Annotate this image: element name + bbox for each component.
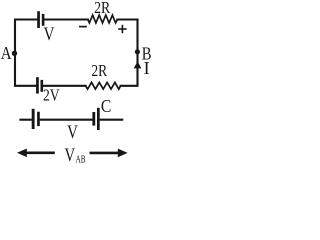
battery V (bottom branch) bbox=[32, 109, 40, 129]
node B bbox=[135, 49, 140, 54]
arrow left (V_AB) bbox=[17, 149, 55, 158]
wire right side down to B bbox=[136, 20, 138, 63]
svg-text:2V: 2V bbox=[43, 86, 60, 105]
wire top-left segment bbox=[15, 20, 37, 54]
current arrow I on right wire bbox=[134, 61, 142, 68]
polarity minus (top resistor) bbox=[79, 26, 87, 28]
resistor 2R (top) bbox=[88, 15, 118, 23]
wire bottom-mid segment bbox=[43, 85, 86, 87]
wire right side below arrow bbox=[121, 66, 138, 86]
svg-text:2R: 2R bbox=[91, 61, 107, 80]
svg-text:C: C bbox=[101, 96, 111, 116]
capacitor C bbox=[92, 108, 99, 130]
node A bbox=[12, 51, 17, 56]
svg-text:2R: 2R bbox=[94, 0, 111, 17]
wire top-right segment bbox=[117, 18, 137, 20]
svg-text:AB: AB bbox=[76, 155, 86, 166]
battery 2V (bottom of loop) bbox=[36, 77, 43, 93]
bottom branch: wire right segment bbox=[100, 119, 124, 121]
wire left side below A bbox=[15, 53, 36, 86]
svg-text:I: I bbox=[144, 58, 150, 78]
arrow right (V_AB) bbox=[90, 149, 128, 158]
svg-text:A: A bbox=[1, 43, 12, 63]
polarity plus (top resistor) bbox=[118, 25, 126, 33]
svg-text:V: V bbox=[67, 122, 78, 143]
bottom branch: wire mid segment bbox=[40, 119, 93, 121]
bottom branch: wire left segment bbox=[19, 119, 32, 121]
wire top-mid segment bbox=[44, 18, 88, 20]
svg-text:V: V bbox=[65, 145, 76, 166]
resistor 2R (bottom) bbox=[86, 82, 121, 89]
battery V (top) bbox=[37, 11, 44, 28]
svg-text:V: V bbox=[44, 24, 55, 45]
